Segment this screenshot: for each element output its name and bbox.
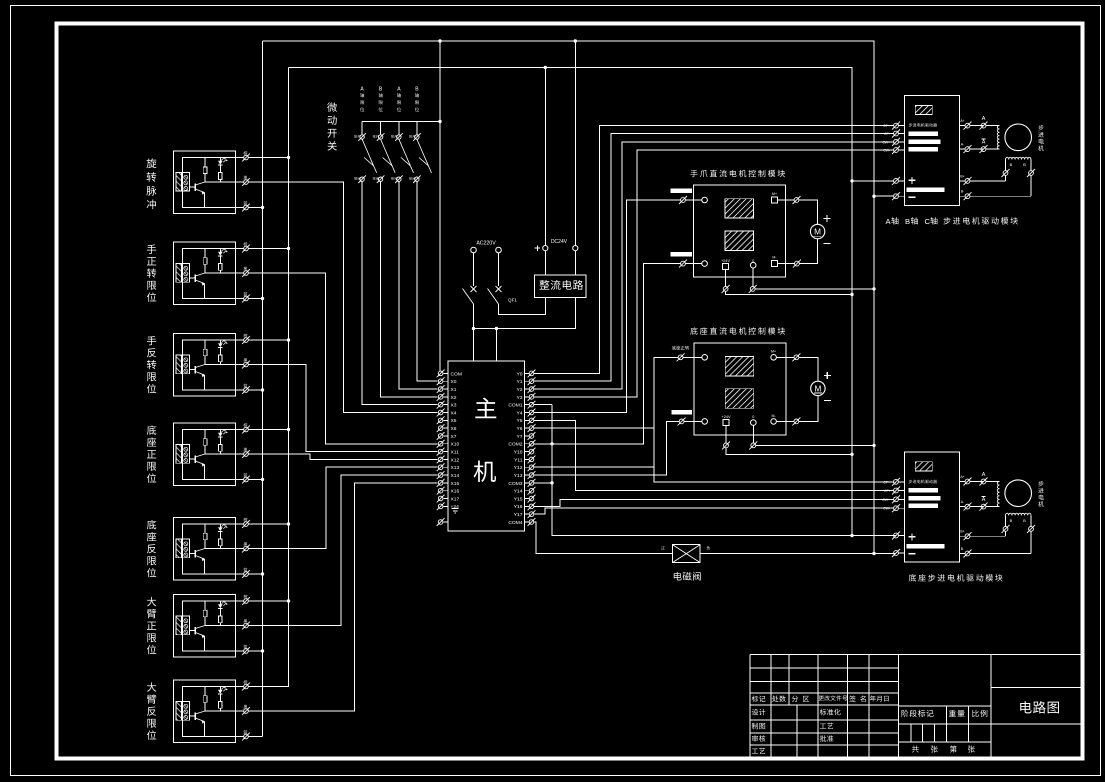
pin Y16 right xyxy=(514,502,536,510)
wire S5 pin3 to bus B1 xyxy=(248,573,262,575)
module A IN2 terminal xyxy=(671,252,708,268)
module A box xyxy=(694,185,786,277)
svg-text:X14: X14 xyxy=(451,473,460,479)
wire SW1 to X input xyxy=(362,181,437,404)
svg-text:COM2: COM2 xyxy=(508,442,522,448)
pin Y7 right xyxy=(517,432,536,440)
pin Y11 right xyxy=(514,456,535,464)
label sensor S2 手正转限位 xyxy=(147,244,156,301)
svg-text:B: B xyxy=(905,217,910,226)
svg-text:+24: +24 xyxy=(451,504,460,510)
svg-text:B: B xyxy=(1010,518,1013,523)
module B +24V pin xyxy=(722,415,852,454)
svg-text:Y6: Y6 xyxy=(517,426,523,432)
wire Y0 to stepper CP+ xyxy=(534,126,894,374)
svg-text:X5: X5 xyxy=(451,418,457,424)
ground symbol inside main box xyxy=(452,509,459,513)
svg-text:CW+: CW+ xyxy=(882,498,890,502)
svg-text:X13: X13 xyxy=(451,465,460,471)
svg-text:C: C xyxy=(925,217,931,226)
svg-text:Y11: Y11 xyxy=(514,457,523,463)
module B IN2 terminal xyxy=(672,410,708,425)
svg-text:Y1: Y1 xyxy=(517,379,523,385)
switch SW1 A轴限位 xyxy=(354,87,377,184)
breaker QF1 pole N xyxy=(498,253,500,286)
label sensor S3 手反转限位 xyxy=(147,336,156,393)
wire S2 pin3 to bus B1 xyxy=(248,298,262,300)
main controller 主机 xyxy=(448,361,525,531)
pin X5 left xyxy=(437,416,457,424)
breaker QF1 pole L xyxy=(473,253,475,286)
motor M1 xyxy=(799,200,831,264)
wire Y13 to DC module B IN2 xyxy=(534,421,679,475)
node tie-rail24 xyxy=(850,534,853,537)
node switch bus to COM feed xyxy=(438,120,441,123)
wire Y17 to base stepper DIR- xyxy=(534,508,894,514)
node stepper1 plus junction xyxy=(850,179,853,182)
svg-text:A+: A+ xyxy=(960,475,964,479)
terminal DC 0V xyxy=(573,246,578,251)
label sensor S7 大臂反限位 xyxy=(147,682,156,739)
stepper driver module 1 (A/B/C axis) xyxy=(882,96,1044,206)
svg-text:B+: B+ xyxy=(960,530,964,534)
label sensor S6 大臂正限位 xyxy=(147,597,156,654)
terminal AC220V L xyxy=(471,247,477,253)
wire S2 pin1 to bus B2 xyxy=(248,248,288,250)
svg-text:A+: A+ xyxy=(960,119,964,123)
sensor module S1 旋转脉冲 xyxy=(173,151,250,213)
pin X0 left xyxy=(437,377,457,385)
pin X15 left xyxy=(437,479,460,487)
wire rail0 to stepper1 minus xyxy=(874,195,894,197)
node S6 pin3 junction xyxy=(261,649,264,652)
wire AC L to rectifier xyxy=(474,298,576,329)
label 微动开关 xyxy=(327,102,337,150)
svg-text:B: B xyxy=(1010,162,1013,167)
svg-text:X2: X2 xyxy=(451,395,457,401)
module B M- pin xyxy=(771,414,801,426)
wire COM feed vertical xyxy=(439,41,441,371)
terminal DC +24V xyxy=(535,245,548,250)
node S1 pin1 junction xyxy=(287,156,290,159)
svg-text:A: A xyxy=(982,472,986,478)
node module B 0V rail junction xyxy=(872,444,875,447)
svg-text:Y7: Y7 xyxy=(517,434,523,440)
wire S3 pin3 to bus B1 xyxy=(248,389,262,391)
wire S7 pin3 to bus B1 xyxy=(248,736,262,738)
wire Y4 to DC module A IN1 xyxy=(534,200,680,413)
svg-text:0: 0 xyxy=(752,259,754,263)
wire +24V COM tie xyxy=(552,405,895,536)
wire S6 pin3 to bus B1 xyxy=(248,650,262,652)
rectifier module 整流电路 xyxy=(535,275,587,297)
pin X7 left xyxy=(437,432,457,440)
svg-text:X10: X10 xyxy=(451,442,460,448)
wire micro-switch common bus xyxy=(362,121,440,123)
pin Y13 right xyxy=(514,471,536,479)
svg-text:B: B xyxy=(1023,162,1026,167)
svg-text:Y4: Y4 xyxy=(517,410,523,416)
node rail24-rectifier junction xyxy=(544,66,547,69)
pin COM1 right xyxy=(508,401,535,409)
pin X4 left xyxy=(437,409,457,417)
wire COM3 to tie xyxy=(534,482,552,484)
wire Y16 to base stepper DIR+ xyxy=(534,499,894,506)
svg-text:CP+: CP+ xyxy=(883,480,890,484)
node rail0-COM feed junction xyxy=(438,39,441,42)
label 主机 xyxy=(474,398,497,483)
node S3 pin1 junction xyxy=(287,338,290,341)
title block texts xyxy=(752,695,988,754)
svg-text:COM4: COM4 xyxy=(508,520,522,526)
node S2 pin1 junction xyxy=(287,247,290,250)
svg-text:0: 0 xyxy=(752,415,754,419)
node module A 0V rail junction xyxy=(872,287,875,290)
svg-text:Y10: Y10 xyxy=(514,450,523,456)
wire sensor bus B1 xyxy=(262,41,264,737)
svg-text:X0: X0 xyxy=(451,379,457,385)
svg-text:CW-: CW- xyxy=(883,507,890,511)
label A轴 B轴 C轴 步进电机驱动模块 xyxy=(886,217,1018,226)
svg-text:Y12: Y12 xyxy=(514,465,523,471)
sensor module S6 大臂正限位 xyxy=(173,595,250,657)
svg-text:X12: X12 xyxy=(451,457,460,463)
sensor module S4 底座正限位 xyxy=(173,423,250,485)
wire S6 pin2 to X input xyxy=(248,475,437,625)
pin Y1 right xyxy=(517,377,536,385)
node power stub junction xyxy=(495,327,498,330)
svg-text:A: A xyxy=(982,140,986,146)
node rail0-rectifier junction xyxy=(574,39,577,42)
wire main power stub xyxy=(495,329,497,362)
svg-text:QF1: QF1 xyxy=(508,298,517,303)
wire S4 pin1 to bus B2 xyxy=(248,429,288,431)
motor M2 xyxy=(799,357,831,421)
pin Y3 right xyxy=(517,393,536,401)
module B M+ pin xyxy=(771,350,801,362)
module A +24V pin xyxy=(721,259,852,295)
solenoid valve 电磁阀 xyxy=(661,545,710,563)
pin Y12 right xyxy=(514,463,536,471)
node S4 pin1 junction xyxy=(287,428,290,431)
DC motor control module A 手爪直流电机控制模块 xyxy=(690,170,785,177)
node AC L branch xyxy=(472,327,475,330)
wire S6 pin1 to bus B2 xyxy=(248,600,288,602)
terminal AC220V N xyxy=(496,247,502,253)
svg-text:Y16: Y16 xyxy=(514,504,523,510)
wire solenoid to base stepper minus xyxy=(700,553,895,555)
svg-text:X3: X3 xyxy=(451,403,457,409)
drawing title 电路图 xyxy=(1020,701,1059,714)
switch SW2 B轴限位 xyxy=(373,87,396,184)
wire Y3 to stepper DIR- xyxy=(534,150,894,397)
module B IN1 terminal xyxy=(672,346,708,362)
node S4 pin3 junction xyxy=(261,478,264,481)
svg-text:CW-: CW- xyxy=(883,149,890,153)
svg-text:Y0: Y0 xyxy=(517,371,523,377)
label 电磁阀 xyxy=(674,572,701,581)
node solenoid rail0 junction xyxy=(872,552,875,555)
svg-text:B-: B- xyxy=(961,547,964,551)
svg-text:X15: X15 xyxy=(451,481,460,487)
wire SW3 to X input xyxy=(399,181,438,389)
node S6 pin1 junction xyxy=(287,599,290,602)
wire SW4 to X input xyxy=(417,181,438,381)
wire S1 pin3 to bus B1 xyxy=(248,207,262,209)
wire S5 pin2 to X input xyxy=(248,467,437,548)
svg-text:Y3: Y3 xyxy=(517,395,523,401)
svg-text:X16: X16 xyxy=(451,489,460,495)
module A M+ pin xyxy=(772,192,801,204)
svg-text:X7: X7 xyxy=(451,434,457,440)
svg-text:CP-: CP- xyxy=(884,132,890,136)
svg-text:CW+: CW+ xyxy=(882,140,890,144)
svg-text:AC220V: AC220V xyxy=(476,241,496,247)
svg-text:COM1: COM1 xyxy=(508,403,522,409)
pin X13 left xyxy=(437,463,460,471)
wire Y5 to base stepper CP- xyxy=(534,420,894,490)
pin X3 left xyxy=(437,401,457,409)
svg-text:Y13: Y13 xyxy=(514,473,523,479)
svg-text:M+: M+ xyxy=(771,350,776,354)
node S2 pin3 junction xyxy=(261,297,264,300)
wire S4 pin2 to X input xyxy=(248,454,437,459)
wire COM1 to +24 tie xyxy=(534,404,552,406)
module A IN1 terminal xyxy=(671,189,708,205)
pin X17 left xyxy=(437,495,460,503)
pin X14 left xyxy=(437,471,460,479)
pin X1 left xyxy=(437,385,457,393)
wire S2 pin2 to X input xyxy=(248,273,437,444)
svg-text:X1: X1 xyxy=(451,387,457,393)
wire S3 pin2 to X input xyxy=(248,365,437,452)
svg-text:A-: A- xyxy=(961,500,964,504)
pin X2 left xyxy=(437,393,457,401)
svg-text:Y15: Y15 xyxy=(514,496,523,502)
wire S7 pin2 to X input xyxy=(248,483,437,711)
module A M- pin xyxy=(772,256,801,268)
wire COM4 to solenoid xyxy=(534,522,673,554)
wire Y12 to DC module B IN1 xyxy=(534,357,678,467)
svg-text:B-: B- xyxy=(961,190,964,194)
svg-text:Y2: Y2 xyxy=(517,387,523,393)
wire S7 pin1 to bus B2 xyxy=(248,686,288,688)
stepper driver module 2 (base) xyxy=(882,452,1044,562)
svg-text:COM: COM xyxy=(451,371,462,377)
node stepper1 minus junction xyxy=(872,195,875,198)
svg-text:A: A xyxy=(982,116,986,122)
pin X16 left xyxy=(437,487,460,495)
svg-text:CP-: CP- xyxy=(884,489,890,493)
pin NC left xyxy=(437,518,448,526)
node S5 pin3 junction xyxy=(261,572,264,575)
pin Y5 right xyxy=(517,416,536,424)
pin X6 left xyxy=(437,424,457,432)
svg-text:B+: B+ xyxy=(960,174,964,178)
wire rectifier + stub xyxy=(544,251,546,276)
wire Y2 to stepper DIR+ xyxy=(534,142,894,389)
wire S3 pin1 to bus B2 xyxy=(248,339,288,341)
svg-text:A: A xyxy=(982,497,986,503)
wire rectifier 0 stub xyxy=(574,251,576,276)
sensor module S2 手正转限位 xyxy=(173,242,250,304)
wire +24V rail top xyxy=(289,68,853,536)
module B 0V pin xyxy=(749,415,874,450)
pin Y6 right xyxy=(517,424,536,432)
wire rail24 to stepper1 plus xyxy=(852,180,894,182)
title block frame xyxy=(750,655,1083,759)
node tie-COM3 xyxy=(550,481,553,484)
svg-text:CP+: CP+ xyxy=(883,124,890,128)
wire 0V rail top xyxy=(263,41,875,554)
node tie-COM2 xyxy=(550,442,553,445)
pin Y4 right xyxy=(517,409,536,417)
wire sensor bus B2 xyxy=(288,68,290,688)
svg-text:COM3: COM3 xyxy=(508,481,522,487)
DC motor control module B 底座直流电机控制模块 xyxy=(690,327,785,334)
pin COM4 right xyxy=(508,518,535,526)
sensor module S3 手反转限位 xyxy=(173,334,250,396)
sensor module S5 底座反限位 xyxy=(173,518,250,580)
svg-text:M: M xyxy=(814,385,821,394)
wire S1 pin1 to bus B2 xyxy=(248,157,288,159)
pin Y10 right xyxy=(514,448,536,456)
wire SW2 to X input xyxy=(381,181,438,396)
svg-text:Y17: Y17 xyxy=(514,512,523,518)
switch SW3 A轴限位 xyxy=(391,87,414,184)
node module B +24V rail junction xyxy=(850,453,853,456)
module B box xyxy=(694,343,786,435)
module A 0V pin xyxy=(749,259,874,293)
svg-text:Y5: Y5 xyxy=(517,418,523,424)
svg-text:A-: A- xyxy=(961,143,964,147)
pin Y17 right xyxy=(514,510,536,518)
svg-text:Y14: Y14 xyxy=(514,489,523,495)
label sensor S4 底座正限位 xyxy=(147,425,157,482)
sensor module S7 大臂反限位 xyxy=(173,680,250,742)
wire Y6 to base stepper CP+ xyxy=(534,428,894,482)
svg-text:X17: X17 xyxy=(451,496,460,502)
wire S4 pin3 to bus B1 xyxy=(248,479,262,481)
pin COM2 right xyxy=(508,440,535,448)
node module A +24V rail junction xyxy=(850,293,853,296)
svg-text:X4: X4 xyxy=(451,410,457,416)
wire Y1 to stepper CP- xyxy=(534,134,894,382)
wire rectifier 0 to rail0 xyxy=(574,41,576,246)
pin X10 left xyxy=(437,440,460,448)
svg-text:M: M xyxy=(814,228,821,237)
pin Y15 right xyxy=(514,495,536,503)
pin X11 left xyxy=(437,448,459,456)
pin X12 left xyxy=(437,456,460,464)
pin Y14 right xyxy=(514,487,536,495)
wire rectifier + to rail24 xyxy=(544,68,546,246)
pin COM3 right xyxy=(508,479,535,487)
svg-text:X6: X6 xyxy=(451,426,457,432)
pin Y0 right xyxy=(517,370,536,378)
node S1 pin3 junction xyxy=(261,206,264,209)
wire S1 pin2 to X input xyxy=(248,182,437,413)
node S5 pin1 junction xyxy=(287,522,290,525)
svg-text:M+: M+ xyxy=(772,192,777,196)
svg-text:X11: X11 xyxy=(451,450,460,456)
pin COM left xyxy=(437,370,462,378)
wire COM2 to DC module A IN2 xyxy=(534,264,680,444)
svg-text:+24V: +24V xyxy=(721,259,730,263)
node S3 pin3 junction xyxy=(261,388,264,391)
wire S5 pin1 to bus B2 xyxy=(248,523,288,525)
pin Y2 right xyxy=(517,385,536,393)
switch SW4 B轴限位 xyxy=(409,87,432,184)
label sensor S5 底座反限位 xyxy=(147,520,157,577)
svg-text:+24V: +24V xyxy=(722,415,731,419)
label sensor S1 旋转脉冲 xyxy=(146,158,156,209)
svg-text:B: B xyxy=(1023,518,1026,523)
svg-text:DC24V: DC24V xyxy=(551,239,568,245)
pin +24 left xyxy=(437,502,459,510)
label 底座步进电机驱动模块 xyxy=(909,574,1003,581)
